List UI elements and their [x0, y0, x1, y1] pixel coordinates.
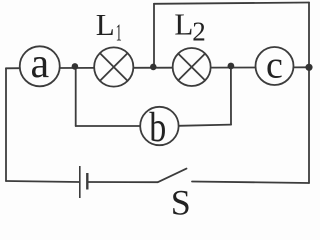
ammeter c	[256, 47, 294, 85]
svg-text:S: S	[171, 182, 191, 217]
svg-text:a: a	[31, 41, 50, 87]
node junction dot left (a/b branch)	[72, 63, 79, 70]
node junction dot between L2 and c	[228, 63, 235, 70]
wire b-branch left horizontal	[76, 125, 141, 127]
node junction dot right edge	[305, 64, 312, 71]
wire b-branch right vertical	[230, 67, 232, 125]
wire main: c to right edge	[293, 66, 309, 68]
switch S blade	[158, 169, 187, 183]
svg-text:L: L	[96, 7, 115, 42]
wire battery to switch	[89, 181, 158, 183]
wire left vertical	[5, 68, 7, 181]
wire bottom left to battery	[6, 181, 79, 182]
node junction dot between L1 and L2	[150, 64, 157, 71]
wire main: corner to ammeter a	[6, 67, 20, 69]
svg-text:1: 1	[116, 20, 122, 46]
wire main: a to L1	[60, 67, 94, 69]
wire b-branch left vertical	[75, 68, 77, 127]
battery long plate	[79, 166, 81, 198]
lamp L1	[94, 47, 133, 86]
lamp L2 cross	[178, 54, 205, 81]
lamp L2	[173, 48, 211, 86]
wire right vertical	[308, 3, 310, 184]
svg-text:2: 2	[192, 16, 206, 46]
svg-text:c: c	[266, 45, 283, 87]
ammeter b	[140, 107, 178, 145]
lamp L1 cross	[100, 53, 128, 81]
ammeter a	[20, 46, 60, 86]
svg-text:b: b	[149, 105, 166, 151]
wire switch to bottom right	[192, 182, 309, 184]
wire top	[154, 3, 309, 4]
wire main: L2 to c	[211, 67, 256, 69]
wire top-loop vertical to node B	[153, 4, 155, 68]
svg-text:L: L	[174, 7, 193, 42]
battery short plate	[86, 173, 88, 190]
wire main: L1 to L2	[133, 67, 173, 69]
wire b-branch right horizontal	[179, 125, 231, 126]
